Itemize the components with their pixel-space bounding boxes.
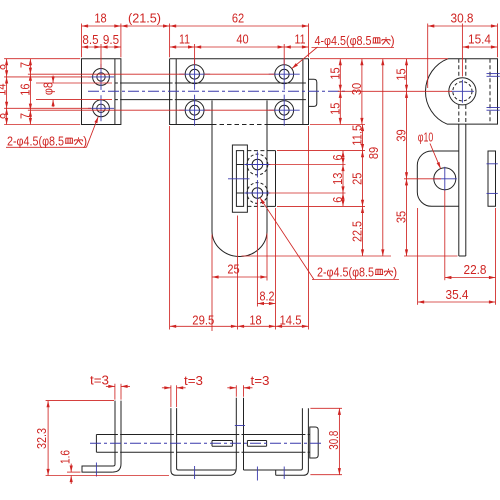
svg-text:11.5: 11.5 xyxy=(350,125,365,146)
svg-text:): ) xyxy=(391,33,395,48)
svg-text:11: 11 xyxy=(295,32,306,47)
svg-text:14.5: 14.5 xyxy=(280,312,302,327)
svg-text:t=3: t=3 xyxy=(90,373,109,388)
svg-text:22.5: 22.5 xyxy=(350,221,365,242)
svg-text:8: 8 xyxy=(0,113,9,119)
svg-text:32.3: 32.3 xyxy=(34,428,49,449)
svg-text:15: 15 xyxy=(327,67,342,79)
svg-text:7: 7 xyxy=(18,113,33,119)
svg-text:9.5: 9.5 xyxy=(103,32,119,47)
svg-text:25: 25 xyxy=(227,262,239,277)
svg-text:15: 15 xyxy=(394,68,409,80)
svg-text:): ) xyxy=(83,133,87,148)
svg-text:25: 25 xyxy=(350,173,365,185)
svg-text:18: 18 xyxy=(249,312,261,327)
svg-text:18: 18 xyxy=(94,11,106,26)
svg-text:8.5: 8.5 xyxy=(82,32,98,47)
svg-text:15.4: 15.4 xyxy=(468,32,491,47)
svg-text:8.2: 8.2 xyxy=(260,289,275,304)
svg-text:(21.5): (21.5) xyxy=(128,11,161,26)
svg-text:φ10: φ10 xyxy=(418,130,434,145)
svg-text:11: 11 xyxy=(179,32,190,47)
svg-text:t=3: t=3 xyxy=(251,373,270,388)
svg-text:2-φ4.5(φ8.5: 2-φ4.5(φ8.5 xyxy=(317,265,374,280)
svg-text:8: 8 xyxy=(0,64,9,70)
svg-text:1.6: 1.6 xyxy=(58,450,73,464)
svg-text:15: 15 xyxy=(327,103,342,115)
svg-text:): ) xyxy=(393,265,397,280)
svg-text:14: 14 xyxy=(0,83,9,95)
svg-text:29.5: 29.5 xyxy=(192,312,214,327)
svg-text:16: 16 xyxy=(18,83,33,95)
svg-text:40: 40 xyxy=(236,32,248,47)
svg-text:30: 30 xyxy=(349,83,364,95)
svg-text:7: 7 xyxy=(18,62,33,68)
svg-text:φ8: φ8 xyxy=(40,82,55,95)
svg-text:89: 89 xyxy=(366,147,381,159)
svg-text:t=3: t=3 xyxy=(184,373,203,388)
svg-text:30.8: 30.8 xyxy=(326,431,341,450)
svg-text:4-φ4.5(φ8.5: 4-φ4.5(φ8.5 xyxy=(315,33,372,48)
svg-text:6: 6 xyxy=(330,197,345,203)
svg-text:2-φ4.5(φ8.5: 2-φ4.5(φ8.5 xyxy=(7,133,64,148)
svg-text:62: 62 xyxy=(232,11,244,26)
svg-text:30.8: 30.8 xyxy=(451,11,474,26)
svg-text:35.4: 35.4 xyxy=(446,287,469,302)
svg-text:13: 13 xyxy=(330,173,345,185)
svg-text:39: 39 xyxy=(394,129,409,141)
svg-text:22.8: 22.8 xyxy=(464,262,487,277)
svg-text:35: 35 xyxy=(394,211,409,223)
svg-text:6: 6 xyxy=(330,155,345,161)
